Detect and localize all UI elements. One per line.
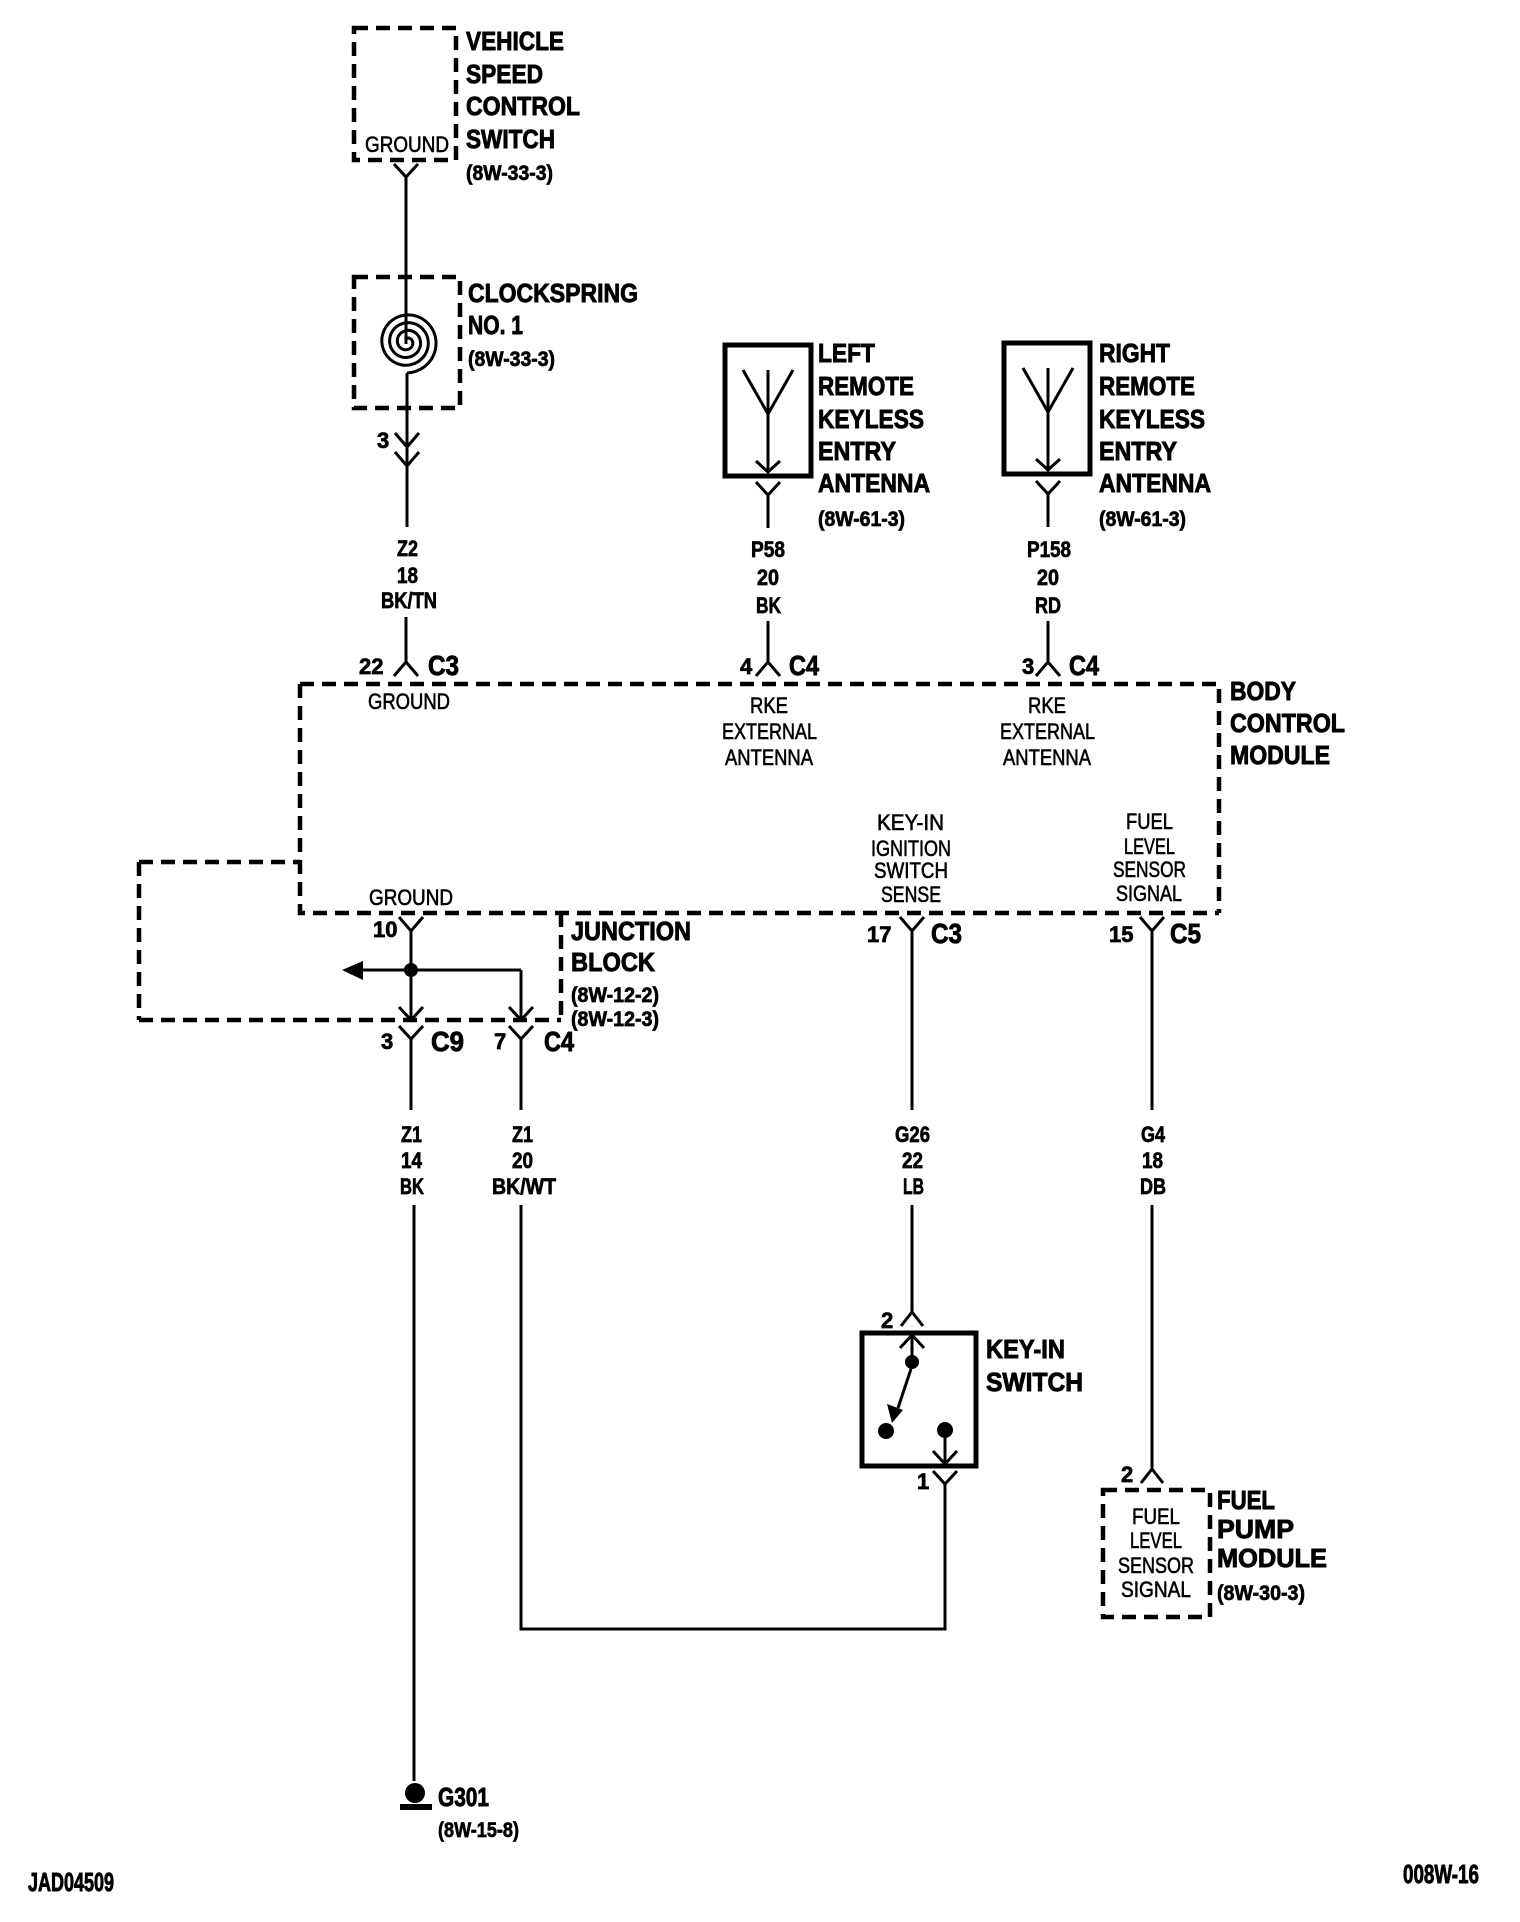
- svg-text:10: 10: [373, 917, 397, 942]
- branch down right: [520, 970, 523, 1020]
- svg-text:NO. 1: NO. 1: [468, 310, 523, 340]
- svg-text:22: 22: [359, 654, 383, 679]
- svg-text:(8W-12-2): (8W-12-2): [571, 984, 659, 1007]
- svg-text:MODULE: MODULE: [1217, 1543, 1327, 1573]
- svg-text:(8W-15-8): (8W-15-8): [438, 1819, 519, 1842]
- svg-text:Z2: Z2: [397, 536, 418, 561]
- svg-text:22: 22: [902, 1148, 923, 1173]
- BCM pin labels top: [368, 689, 450, 714]
- left antenna label: [818, 338, 930, 531]
- svg-text:4: 4: [740, 654, 753, 679]
- svg-text:BK: BK: [756, 593, 781, 618]
- vehicle speed control switch box: [354, 28, 456, 160]
- svg-text:(8W-33-3): (8W-33-3): [468, 348, 555, 371]
- svg-text:(8W-33-3): (8W-33-3): [466, 162, 553, 185]
- svg-text:Z1: Z1: [512, 1122, 533, 1147]
- svg-text:1: 1: [917, 1469, 929, 1494]
- pin 1 arrow out of switch: [933, 1451, 957, 1464]
- wire Z1 20 below junction: [520, 1072, 523, 1110]
- connector Y below switch: [394, 164, 418, 200]
- svg-text:(8W-61-3): (8W-61-3): [1099, 508, 1186, 531]
- connector 4 C4: [740, 650, 819, 681]
- svg-text:2: 2: [881, 1308, 893, 1333]
- ground G301: [400, 1782, 519, 1842]
- svg-text:P158: P158: [1027, 537, 1071, 562]
- connector 1 below key-in: [917, 1469, 957, 1509]
- connector 2 key-in: [881, 1300, 923, 1333]
- svg-text:18: 18: [1142, 1148, 1163, 1173]
- key-in switch label: [986, 1334, 1083, 1397]
- svg-text:FUEL: FUEL: [1217, 1485, 1275, 1515]
- svg-text:SWITCH: SWITCH: [466, 124, 555, 154]
- svg-text:LEVEL: LEVEL: [1130, 1528, 1182, 1553]
- svg-text:SIGNAL: SIGNAL: [1121, 1577, 1191, 1602]
- svg-text:FUEL: FUEL: [1132, 1504, 1180, 1529]
- clockspring no.1 box: [354, 277, 460, 408]
- svg-text:C4: C4: [789, 650, 819, 681]
- svg-text:2: 2: [1121, 1462, 1133, 1487]
- svg-text:BK/TN: BK/TN: [381, 588, 437, 613]
- wire label P158 20 RD: [1027, 537, 1071, 618]
- svg-text:PUMP: PUMP: [1217, 1514, 1294, 1544]
- splice 3 double chevron: [377, 428, 419, 466]
- svg-text:BK: BK: [400, 1174, 424, 1199]
- connector 15 C5 below BCM: [1109, 917, 1201, 950]
- svg-text:3: 3: [381, 1029, 393, 1054]
- connector 3 C9: [381, 1026, 464, 1072]
- svg-text:SWITCH: SWITCH: [874, 858, 948, 883]
- svg-text:GROUND: GROUND: [365, 132, 449, 157]
- pin 1 lead: [944, 1437, 947, 1462]
- svg-text:C3: C3: [931, 918, 962, 949]
- svg-text:CONTROL: CONTROL: [1230, 708, 1345, 738]
- chevron into junction pin 3: [399, 1007, 423, 1020]
- svg-text:C4: C4: [544, 1026, 574, 1057]
- vehicle speed control switch label: [466, 26, 580, 185]
- svg-text:3: 3: [377, 428, 389, 453]
- svg-text:15: 15: [1109, 922, 1133, 947]
- svg-text:ENTRY: ENTRY: [818, 436, 896, 466]
- svg-text:7: 7: [494, 1029, 506, 1054]
- svg-text:ANTENNA: ANTENNA: [1003, 745, 1091, 770]
- svg-text:RIGHT: RIGHT: [1099, 338, 1170, 368]
- wire label G26 22 LB: [895, 1122, 930, 1199]
- svg-text:008W-16: 008W-16: [1403, 1859, 1479, 1889]
- svg-text:BK/WT: BK/WT: [492, 1174, 556, 1199]
- wire Z1 BK/WT long run: [521, 1205, 945, 1629]
- left remote keyless entry antenna box: [725, 345, 811, 476]
- wire Z1 14 below junction: [410, 1072, 413, 1110]
- svg-text:MODULE: MODULE: [1230, 740, 1330, 770]
- svg-text:(8W-12-3): (8W-12-3): [571, 1008, 659, 1031]
- svg-text:14: 14: [401, 1148, 423, 1173]
- svg-text:ENTRY: ENTRY: [1099, 436, 1177, 466]
- wire below clockspring: [406, 373, 409, 527]
- svg-text:LB: LB: [903, 1174, 924, 1199]
- svg-text:(8W-30-3): (8W-30-3): [1217, 1582, 1305, 1605]
- svg-text:LEVEL: LEVEL: [1124, 834, 1175, 859]
- fuel pump module label: [1217, 1485, 1327, 1605]
- wire label Z1 20 BK/WT: [492, 1122, 556, 1199]
- svg-text:BODY: BODY: [1230, 676, 1296, 706]
- svg-text:(8W-61-3): (8W-61-3): [818, 508, 905, 531]
- svg-text:SIGNAL: SIGNAL: [1116, 881, 1182, 906]
- svg-text:GROUND: GROUND: [368, 689, 450, 714]
- switch throw contact dot left: [878, 1423, 894, 1439]
- switch arm: [898, 1369, 911, 1408]
- body control module box: [300, 684, 1219, 913]
- svg-text:C5: C5: [1170, 918, 1201, 949]
- connector 17 C3 below BCM: [867, 917, 962, 950]
- wire ground bus horizontal: [363, 969, 521, 972]
- svg-text:C3: C3: [428, 650, 459, 681]
- switch common contact dot: [905, 1355, 919, 1369]
- svg-text:G301: G301: [438, 1782, 489, 1812]
- svg-text:EXTERNAL: EXTERNAL: [1000, 719, 1095, 744]
- svg-text:SWITCH: SWITCH: [986, 1367, 1083, 1397]
- junction block label: [571, 916, 691, 1031]
- svg-text:FUEL: FUEL: [1126, 809, 1173, 834]
- svg-text:ANTENNA: ANTENNA: [1099, 468, 1211, 498]
- svg-text:G26: G26: [895, 1122, 930, 1147]
- wire to BCM pin 22: [405, 617, 408, 650]
- svg-text:CLOCKSPRING: CLOCKSPRING: [468, 278, 638, 308]
- wire to BCM pin 4: [767, 621, 770, 650]
- svg-text:SENSE: SENSE: [881, 882, 941, 907]
- junction block dashed outline: [139, 862, 561, 1020]
- svg-text:CONTROL: CONTROL: [466, 91, 580, 121]
- connector Y below right antenna: [1036, 481, 1060, 527]
- svg-text:VEHICLE: VEHICLE: [466, 26, 564, 56]
- wire label Z1 14 BK: [400, 1122, 424, 1199]
- wire ground bus vertical: [410, 958, 413, 1020]
- pin 2 arrow into switch: [900, 1335, 924, 1356]
- wire label G4 18 DB: [1140, 1122, 1166, 1199]
- svg-text:20: 20: [512, 1148, 533, 1173]
- svg-text:JAD04509: JAD04509: [28, 1867, 114, 1897]
- svg-text:DB: DB: [1140, 1174, 1166, 1199]
- clockspring label: [468, 278, 638, 371]
- switch pin 1 contact dot: [937, 1422, 953, 1438]
- svg-text:KEY-IN: KEY-IN: [986, 1334, 1065, 1364]
- svg-text:REMOTE: REMOTE: [1099, 371, 1195, 401]
- svg-text:SENSOR: SENSOR: [1118, 1553, 1194, 1578]
- svg-text:LEFT: LEFT: [818, 338, 875, 368]
- body control module label: [1230, 676, 1345, 770]
- svg-text:RKE: RKE: [1028, 693, 1066, 718]
- svg-text:SPEED: SPEED: [466, 59, 543, 89]
- svg-text:RD: RD: [1035, 593, 1061, 618]
- svg-text:BLOCK: BLOCK: [571, 947, 655, 977]
- svg-text:20: 20: [1037, 565, 1059, 590]
- svg-text:EXTERNAL: EXTERNAL: [722, 719, 817, 744]
- wire label Z2 18 BK/TN: [381, 536, 437, 613]
- svg-text:GROUND: GROUND: [369, 885, 453, 910]
- svg-text:REMOTE: REMOTE: [818, 371, 914, 401]
- svg-text:3: 3: [1022, 654, 1034, 679]
- connector Y below left antenna: [756, 482, 780, 528]
- wire switch to clockspring: [405, 200, 408, 344]
- chevron into junction pin 7: [509, 1007, 533, 1020]
- BCM pin labels bottom: [871, 810, 951, 907]
- svg-text:18: 18: [397, 563, 418, 588]
- svg-text:RKE: RKE: [750, 693, 788, 718]
- svg-text:C4: C4: [1069, 650, 1099, 681]
- svg-text:17: 17: [867, 922, 891, 947]
- svg-text:KEYLESS: KEYLESS: [818, 404, 924, 434]
- svg-text:KEYLESS: KEYLESS: [1099, 404, 1205, 434]
- connector 7 C4: [494, 1026, 574, 1072]
- connector 10 below BCM: [373, 917, 423, 958]
- connector 22 C3: [359, 650, 459, 681]
- clockspring spiral: [382, 315, 436, 373]
- feed arrow: [342, 961, 363, 980]
- junction dot: [404, 963, 418, 977]
- svg-text:ANTENNA: ANTENNA: [818, 468, 930, 498]
- right remote keyless entry antenna box: [1004, 343, 1090, 474]
- svg-text:P58: P58: [751, 537, 785, 562]
- svg-text:ANTENNA: ANTENNA: [725, 745, 813, 770]
- svg-text:Z1: Z1: [401, 1122, 422, 1147]
- svg-text:C9: C9: [431, 1026, 464, 1057]
- wire G26 down: [911, 950, 914, 1110]
- wire to BCM pin 3: [1047, 621, 1050, 650]
- key-in switch box: [862, 1333, 976, 1466]
- wire Z1 BK to ground: [413, 1205, 416, 1781]
- wire G4 down: [1151, 950, 1154, 1110]
- right antenna label: [1099, 338, 1211, 531]
- connector 2 fuel pump: [1121, 1456, 1163, 1487]
- fuel pump module dashed box: [1103, 1490, 1210, 1617]
- svg-text:20: 20: [757, 565, 779, 590]
- svg-text:G4: G4: [1141, 1122, 1166, 1147]
- connector 3 C4: [1022, 650, 1099, 681]
- svg-text:SENSOR: SENSOR: [1113, 857, 1186, 882]
- svg-text:KEY-IN: KEY-IN: [877, 810, 944, 835]
- wire label P58 20 BK: [751, 537, 785, 618]
- svg-text:JUNCTION: JUNCTION: [571, 916, 691, 946]
- switch arm arrowhead: [887, 1404, 903, 1423]
